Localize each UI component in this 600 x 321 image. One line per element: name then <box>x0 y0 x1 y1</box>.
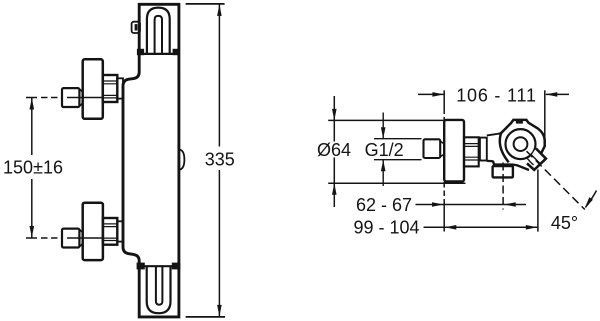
side nut <box>464 137 479 166</box>
side stem G1/2 <box>424 139 441 158</box>
lower nut <box>103 218 117 245</box>
svg-text:62 - 67: 62 - 67 <box>356 195 412 215</box>
top joint end block right <box>173 49 180 55</box>
right side bump <box>179 149 185 169</box>
wall plane line (side view) <box>443 90 445 231</box>
lower nut facets <box>103 224 117 241</box>
bottom joint end block right <box>172 263 181 270</box>
spout bevel arc <box>527 159 533 165</box>
adapter and elbow bottom <box>487 161 529 170</box>
spout 45° <box>526 148 546 170</box>
dimension 335 extension top <box>186 3 225 5</box>
side escutcheon <box>444 120 464 182</box>
angle arc arrow <box>586 191 597 208</box>
svg-text:99 - 104: 99 - 104 <box>353 218 419 238</box>
knob tab notch <box>516 121 523 124</box>
knob outer outline <box>500 120 545 162</box>
outlet axis dashed <box>502 163 504 210</box>
lower fitting cone <box>79 229 82 246</box>
top joint end block left <box>137 49 144 55</box>
upper nut facets <box>103 81 118 98</box>
top U slot outer <box>147 8 170 54</box>
spout inner line <box>531 154 540 163</box>
lower escutcheon <box>83 203 103 260</box>
upper escutcheon <box>83 59 103 119</box>
adapter top edge <box>487 133 502 136</box>
upper fitting cone <box>79 89 82 106</box>
bottom joint end block left <box>137 263 145 270</box>
dimension 335 line <box>218 4 220 316</box>
mixer body outline (front view) <box>123 4 179 317</box>
upper collar <box>117 78 123 98</box>
bottom U slot outer <box>147 266 171 313</box>
dimension 150±16 line <box>31 98 33 238</box>
svg-text:150±16: 150±16 <box>3 158 63 178</box>
left clip tab on top section <box>132 22 140 33</box>
lower inlet fitting <box>62 229 79 248</box>
svg-text:45°: 45° <box>551 213 578 233</box>
45 degree dashed line <box>527 151 585 209</box>
handle inner circle <box>514 137 528 151</box>
dimension Ø64 extension lines <box>328 96 465 207</box>
lower collar <box>117 221 123 241</box>
handle circle <box>506 129 536 159</box>
clip tab dark mark <box>135 24 138 30</box>
outlet port <box>493 166 513 177</box>
dimension 106-111 <box>418 90 569 146</box>
lower inlet centerline <box>26 237 103 239</box>
bottom joint line <box>139 265 179 267</box>
svg-text:Ø64: Ø64 <box>317 140 351 160</box>
side waist ring <box>480 138 487 161</box>
dimension 99-104 <box>424 170 538 232</box>
upper inlet fitting <box>62 88 79 107</box>
side nut facets <box>464 144 479 160</box>
top U slot inner <box>155 16 162 54</box>
upper nut <box>103 75 118 102</box>
top joint line <box>139 53 179 55</box>
dimension 335 extension bottom <box>186 316 225 318</box>
bottom U slot inner <box>156 266 163 305</box>
svg-text:G1/2: G1/2 <box>365 140 404 160</box>
dimension G1/2 extension lines <box>374 113 422 187</box>
upper inlet centerline <box>26 97 103 99</box>
svg-text:335: 335 <box>205 150 235 170</box>
side stem cone <box>440 141 444 157</box>
svg-text:106 - 111: 106 - 111 <box>456 86 537 106</box>
dimension 62-67 <box>416 204 527 206</box>
